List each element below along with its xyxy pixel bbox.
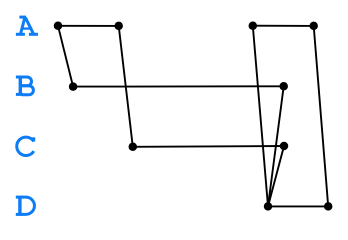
node B2 (279, 82, 288, 91)
wire A1-B1 (58, 26, 73, 87)
node label C (17, 137, 34, 155)
wire A4-D2 (314, 26, 329, 207)
wire A1-A2 (58, 25, 119, 27)
node label B (16, 77, 34, 95)
node A4 (309, 22, 318, 31)
wire D1-D2 (268, 205, 328, 207)
wire C1-C2 (133, 145, 284, 148)
node C1 (129, 143, 138, 152)
node A2 (114, 22, 123, 31)
wire A3-A4 (253, 25, 314, 27)
wire B1-B2 (73, 85, 284, 87)
node label D (16, 197, 35, 214)
node A3 (249, 21, 257, 30)
wire C2-D1 (268, 146, 284, 206)
node A1 (54, 22, 63, 31)
node label A (16, 17, 38, 34)
node D2 (324, 202, 333, 211)
node C2 (280, 142, 289, 151)
node B1 (69, 82, 78, 91)
wire A2-C1 (119, 26, 133, 147)
wire A3-D1 (253, 26, 268, 207)
node D1 (264, 202, 273, 211)
wire B2-D1 (268, 86, 284, 206)
